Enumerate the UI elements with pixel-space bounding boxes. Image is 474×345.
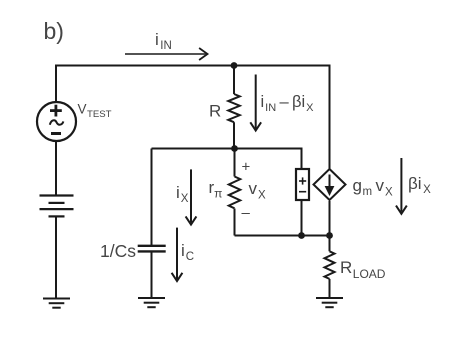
resistor r_pi [229, 149, 241, 236]
wire cap to ground [151, 251, 153, 298]
node dot mid (r_pi top) [231, 145, 238, 152]
wire VTEST to battery [55, 141, 57, 196]
ground (right) [316, 298, 343, 307]
ground (left) [43, 299, 70, 308]
svg-text:–: – [242, 205, 251, 222]
wire box to bottom node [301, 200, 303, 236]
wire cap top [151, 149, 153, 246]
wire diamond to R_LOAD [329, 201, 331, 251]
capacitor 1/Cs [138, 246, 166, 252]
voltage source VTEST [37, 102, 76, 141]
dependent voltage source box (+/-) [296, 169, 309, 200]
arrow i_C [172, 228, 183, 281]
svg-text:1/Cs: 1/Cs [100, 241, 136, 261]
node dot bottom left (box bottom) [298, 232, 305, 239]
resistor R_LOAD [325, 251, 335, 298]
node dot bottom right (R_LOAD junction) [326, 232, 333, 239]
wire mid (cap branch to box branch) [152, 149, 302, 170]
node A dot (top, R junction) [231, 62, 238, 69]
wire battery to ground [55, 216, 57, 298]
svg-text:+: + [242, 159, 251, 176]
battery (left branch) [40, 196, 74, 217]
arrow i_IN - beta i_x [250, 75, 261, 131]
svg-text:b): b) [44, 18, 64, 44]
svg-text:R: R [209, 102, 221, 121]
arrow beta i_x [396, 158, 407, 214]
resistor R [228, 66, 240, 149]
arrow i_IN [125, 48, 208, 60]
wire bottom (r_pi to R_LOAD branch) [235, 235, 330, 237]
arrow i_x [186, 169, 197, 224]
wire top (VTEST to right branch) [56, 66, 330, 170]
dependent current source g_m v_x (diamond) [314, 169, 346, 200]
ground (capacitor) [138, 298, 165, 307]
